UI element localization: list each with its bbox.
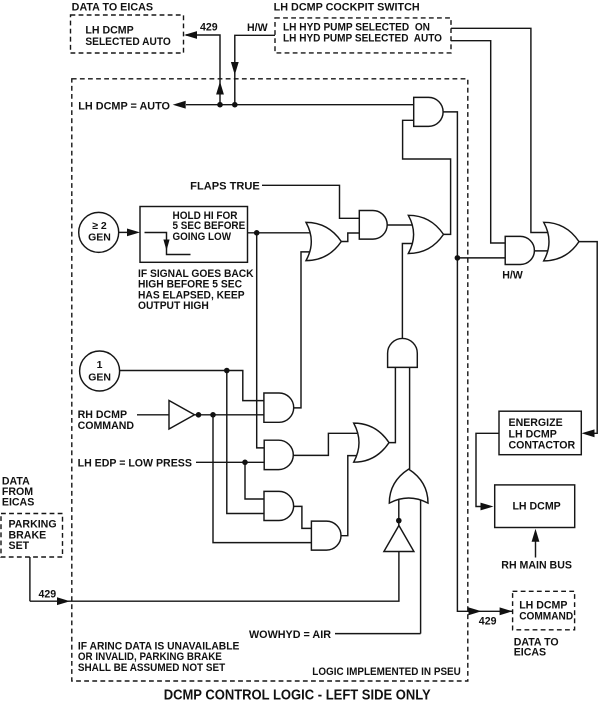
svg-text:FLAPS TRUE: FLAPS TRUE — [190, 181, 260, 193]
svg-text:SET: SET — [9, 540, 30, 552]
svg-text:429: 429 — [39, 589, 57, 601]
OR gate: OR3 — [354, 423, 389, 462]
box: ENERGIZE LH DCMP CONTACTOR — [499, 411, 581, 455]
node: hold box output — [254, 230, 260, 236]
svg-text:LOGIC IMPLEMENTED IN PSEU: LOGIC IMPLEMENTED IN PSEU — [312, 666, 461, 678]
wire: OR1 output to mid AND input 2 — [341, 233, 359, 242]
wire: LH DCMP = AUTO horizontal line — [186, 104, 414, 106]
svg-text:SELECTED AUTO: SELECTED AUTO — [85, 36, 170, 48]
buffer: vertical triangle (parking brake) — [384, 526, 414, 552]
hold box falling-edge delay symbol — [145, 233, 191, 255]
wire: hold box output to OR1 input 1 — [248, 232, 311, 234]
node: above parking buffer — [396, 518, 402, 524]
arrowhead: parking brake 429 — [57, 597, 70, 605]
wire: parking brake box down — [29, 557, 31, 601]
AND gate: E (vertical, output up) — [388, 338, 418, 367]
wire: buffer input from parking brake 429 line — [30, 552, 399, 602]
arrowhead: RH MAIN BUS up — [532, 529, 540, 542]
svg-text:LH DCMP: LH DCMP — [512, 501, 560, 513]
node: right vertical to H/W AND — [455, 255, 461, 261]
svg-text:LH DCMP COCKPIT SWITCH: LH DCMP COCKPIT SWITCH — [274, 1, 420, 13]
wire: 1 GEN to AND A input 1 — [120, 371, 264, 401]
svg-text:GEN: GEN — [88, 232, 111, 244]
svg-text:LH DCMP: LH DCMP — [85, 24, 133, 36]
wire: buffer output to AND A input 2 — [195, 414, 264, 416]
arrowhead: 429 out at PSEU boundary (bottom right) — [469, 607, 482, 615]
node: 1 GEN line tap — [224, 368, 230, 374]
node: buffer output 2 — [210, 412, 216, 418]
dashed box: PARKING BRAKE SET — [1, 514, 63, 558]
wire: buffered RH DCMP down to AND D input 2 — [213, 415, 311, 543]
svg-text:LH DCMP = AUTO: LH DCMP = AUTO — [78, 101, 170, 113]
wire: mid AND output to OR2 input 1 — [387, 224, 412, 226]
wire: gen>=2 circle to hold box — [119, 231, 128, 233]
svg-text:RH MAIN BUS: RH MAIN BUS — [501, 559, 572, 571]
arrowhead: into LH DCMP COMMAND box — [500, 607, 513, 615]
wire: HYD PUMP ON line to right OR input 1 — [451, 28, 552, 232]
AND gate: H/W — [505, 236, 534, 264]
svg-text:LH EDP = LOW PRESS: LH EDP = LOW PRESS — [78, 458, 192, 470]
OR gate: OR2 — [408, 215, 443, 253]
wire: right OR output down to ENERGIZE box — [579, 242, 597, 434]
svg-text:H/W: H/W — [502, 270, 523, 282]
svg-text:DATA TO EICAS: DATA TO EICAS — [72, 1, 153, 13]
wire: ENERGIZE box to LH DCMP box — [476, 433, 499, 506]
svg-text:429: 429 — [479, 616, 497, 628]
svg-text:EICAS: EICAS — [514, 646, 546, 658]
node: H/W tap on auto line — [232, 102, 238, 108]
wire: hold output down to AND B input 1 — [257, 233, 265, 448]
svg-text:GOING LOW: GOING LOW — [173, 231, 232, 243]
wire: AND D output up to OR3 input 2 — [341, 456, 357, 536]
svg-text:≥ 2: ≥ 2 — [92, 220, 107, 232]
wire: OR5 input leg 2 down to WOWHYD line — [420, 497, 422, 634]
svg-text:5 SEC BEFORE: 5 SEC BEFORE — [173, 220, 246, 232]
arrowhead: gen>=2 into hold box — [127, 229, 140, 237]
wire: top AND output down right side to LH DCMP COMMAND — [443, 112, 512, 611]
dashed box: LH DCMP SELECTED AUTO — [71, 15, 184, 53]
arrowhead: into LH DCMP SELECTED AUTO box — [184, 31, 197, 39]
wire: LH EDP node down to AND C input 1 — [245, 462, 264, 499]
wire: OR2 output loop up to top AND input 2 — [403, 120, 451, 234]
circle: 1 GEN — [80, 351, 120, 391]
arrowhead: down on H/W line at PSEU boundary — [231, 62, 239, 75]
svg-text:OUTPUT HIGH: OUTPUT HIGH — [138, 300, 209, 312]
svg-text:GEN: GEN — [88, 371, 111, 383]
wire: node to H/W AND input 2 — [457, 257, 505, 259]
svg-text:WOWHYD = AIR: WOWHYD = AIR — [249, 629, 331, 641]
wire: H/W AND output to right OR input 2 — [534, 250, 552, 252]
wire: 429 line up to LH DCMP SELECTED AUTO box — [186, 35, 220, 105]
OR gate: OR5 (vertical, output up) — [389, 469, 428, 503]
AND gate: D — [311, 521, 341, 550]
wire: WOWHYD = AIR line — [335, 633, 421, 635]
buffer: RH DCMP COMMAND triangle — [169, 401, 195, 430]
dashed box: LH HYD PUMP SELECTED — [275, 18, 451, 53]
svg-text:429: 429 — [200, 21, 218, 33]
AND gate: mid (FLAPS) — [359, 211, 387, 240]
wire: AND B output up to OR3 input 1 — [293, 433, 357, 455]
wire: 1 GEN node down to AND C input 2 — [227, 371, 264, 514]
wire: RH MAIN BUS up into LH DCMP box — [535, 541, 537, 558]
svg-text:1: 1 — [97, 359, 103, 371]
dashed box: LH DCMP COMMAND — [513, 591, 575, 630]
AND gate: top (LH DCMP = AUTO qualifier) — [414, 97, 443, 126]
AND gate: B — [264, 440, 293, 469]
wire: OR5 output up to AND E input 2 — [409, 367, 411, 469]
circle: >=2 GEN — [79, 212, 119, 252]
wire: OR5 input leg 1 down to buffer — [398, 497, 400, 526]
svg-text:SHALL BE ASSUMED NOT SET: SHALL BE ASSUMED NOT SET — [78, 662, 226, 674]
wire: OR3 output up to AND E input 1 — [389, 367, 395, 442]
OR gate: right output OR — [544, 222, 579, 261]
wire: AND C output to AND D input 1 — [294, 506, 312, 528]
svg-text:H/W: H/W — [247, 22, 268, 34]
node: 429 tap on auto line — [217, 102, 223, 108]
svg-text:CONTACTOR: CONTACTOR — [509, 439, 576, 451]
svg-text:LH HYD PUMP SELECTED AUTO: LH HYD PUMP SELECTED AUTO — [283, 33, 442, 45]
svg-text:EICAS: EICAS — [2, 497, 34, 509]
arrowhead: LH DCMP = AUTO pointer — [173, 101, 186, 109]
OR gate: OR1 — [306, 222, 341, 260]
arrowhead: into LH DCMP box — [481, 503, 494, 511]
wire: RH DCMP COMMAND into buffer — [137, 414, 169, 416]
wire: HYD PUMP AUTO line to H/W AND input 1 — [451, 41, 505, 243]
svg-text:COMMAND: COMMAND — [519, 611, 573, 623]
AND gate: A — [264, 393, 294, 422]
dashed box: PSEU boundary — [72, 79, 468, 681]
svg-text:DCMP CONTROL LOGIC - LEFT SIDE: DCMP CONTROL LOGIC - LEFT SIDE ONLY — [164, 687, 431, 703]
svg-text:COMMAND: COMMAND — [78, 420, 135, 432]
wire: FLAPS TRUE to mid AND input 1 — [262, 185, 359, 218]
box: LH DCMP — [495, 485, 575, 528]
wire: AND E output up to OR2 input 2 — [402, 244, 412, 339]
arrowhead: into ENERGIZE box — [582, 429, 595, 437]
arrowhead: up on 429 line at PSEU boundary — [216, 82, 224, 95]
wire: H/W line from cockpit switch box down to auto line — [235, 35, 275, 104]
wire: AND A output up to OR1 input 2 — [294, 252, 311, 408]
node: buffer output 1 — [196, 412, 202, 418]
wire: LH EDP = LOW PRESS to AND B input 2 — [196, 461, 264, 463]
node: LH EDP line tap — [242, 460, 248, 466]
box: HOLD HI FOR 5 SEC BEFORE GOING LOW — [140, 207, 248, 263]
AND gate: C — [264, 491, 294, 520]
